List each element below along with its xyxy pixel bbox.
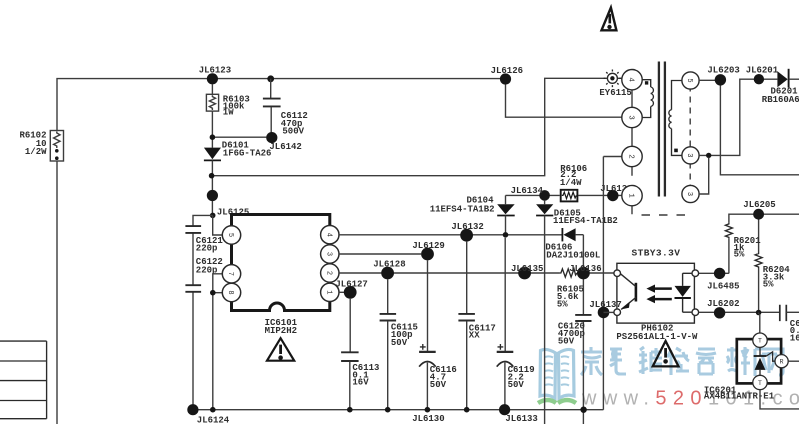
svg-text:T: T	[758, 380, 762, 387]
resistor R6201	[725, 223, 761, 274]
svg-text:PS2561AL1-1-V-W: PS2561AL1-1-V-W	[616, 332, 698, 342]
wire: C6121/C6122 branch	[193, 215, 213, 409]
svg-text:5%: 5%	[734, 250, 745, 260]
IC6201 pin (right)	[775, 355, 788, 368]
wire: pin2 net	[339, 272, 614, 274]
svg-text:JL6127: JL6127	[335, 279, 367, 289]
svg-text:EY6115: EY6115	[599, 88, 631, 98]
capacitor C6203	[780, 305, 799, 344]
svg-text:MIP2H2: MIP2H2	[265, 326, 297, 336]
wire: IC6201 right pin out	[788, 360, 799, 362]
capacitor C6113	[341, 299, 379, 410]
svg-text:5: 5	[226, 233, 234, 237]
diode D6101	[204, 140, 272, 160]
node JL6137	[589, 300, 621, 318]
node JL6133	[499, 404, 538, 424]
node (junction D6104 net)	[503, 232, 509, 238]
svg-text:1F6G-TA26: 1F6G-TA26	[223, 148, 272, 158]
svg-text:JL6485: JL6485	[707, 281, 739, 291]
transformer isolation dashed boundary	[642, 75, 693, 216]
watermark url www.520101.com	[581, 388, 799, 410]
node JL6128	[373, 259, 405, 279]
svg-text:T: T	[758, 338, 762, 345]
transformer secondary pin 3 (lower)	[682, 185, 699, 202]
svg-text:16V: 16V	[790, 333, 799, 343]
resistor R6105	[557, 269, 584, 309]
node (junction R6103/D6101)	[210, 134, 216, 140]
resistor R6103	[206, 84, 249, 148]
wire: pin2 left stub down to JL6137 and ground rail	[603, 157, 621, 410]
transformer primary winding (pins 4-3)	[642, 80, 653, 118]
shunt regulator internals	[754, 348, 776, 376]
optocoupler light arrows	[646, 285, 671, 304]
wire: D6101 cathode down through JL6125	[211, 160, 213, 215]
resistor R6204	[755, 253, 790, 313]
svg-text:JL6133: JL6133	[505, 414, 537, 424]
svg-text:JL6203: JL6203	[707, 66, 739, 76]
svg-text:3: 3	[324, 252, 332, 256]
node JL6135	[511, 264, 543, 280]
wire: snubber line to transformer pin 4	[212, 78, 622, 175]
svg-text:220p: 220p	[196, 244, 218, 254]
spark gap EY6115	[599, 70, 631, 98]
connector table (left edge)	[0, 341, 47, 419]
IC6101 pin 2	[321, 264, 339, 282]
wire: D6106 corner down through JL6136 / C6120 to rail and bottom edge	[582, 235, 584, 424]
svg-text:JL6202: JL6202	[707, 299, 739, 309]
svg-text:8: 8	[226, 290, 234, 294]
node JL6126	[491, 66, 523, 85]
svg-text:JL6136: JL6136	[569, 264, 601, 274]
wire: pin1 to JL6127	[339, 291, 345, 293]
svg-text:RB160A6: RB160A6	[762, 95, 799, 105]
node JL6127	[335, 279, 367, 298]
IC6101 pin 3	[321, 245, 339, 263]
svg-text:JL6132: JL6132	[451, 222, 483, 232]
node JL6142	[266, 132, 302, 152]
node JL6202	[699, 299, 780, 318]
wire: left branch vertical + top rail to JL6126	[57, 79, 506, 424]
node JL6205	[729, 200, 799, 252]
capacitor C6121	[185, 226, 223, 254]
svg-text:AX4B11ANTR-E1: AX4B11ANTR-E1	[704, 392, 775, 402]
diode D6201	[762, 69, 799, 105]
svg-text:11EFS4-TA1B2: 11EFS4-TA1B2	[430, 205, 495, 215]
svg-text:XX: XX	[469, 331, 480, 341]
node (junction JL6125/C6121/pin5)	[210, 213, 216, 219]
wire: jog to IC pin 5	[213, 215, 223, 235]
node JL6139	[600, 184, 632, 201]
wire: R6103 bottom junction to JL6142	[212, 136, 266, 138]
svg-text:5%: 5%	[763, 279, 774, 289]
node (junction pin8)	[210, 290, 216, 296]
svg-text:4: 4	[324, 233, 332, 237]
wire: secondary pin 5 to JL6203, down and out right edge	[699, 80, 799, 175]
capacitor C6116 (electrolytic)	[419, 260, 457, 409]
svg-text:50V: 50V	[508, 380, 525, 390]
svg-text:JL6142: JL6142	[269, 142, 301, 152]
IC6201 pin (top)	[753, 333, 767, 347]
transformer core	[659, 62, 665, 197]
resistor R6106 (fusible, boxed)	[560, 164, 587, 202]
wire: junction down to IC6201	[759, 313, 760, 334]
svg-text:5: 5	[685, 78, 693, 82]
node JL6123	[199, 66, 231, 85]
transformer pin 1	[622, 185, 642, 205]
node JL6125	[207, 190, 250, 218]
wire: JL6126 to transformer pin 3	[506, 85, 622, 118]
node JL6132	[451, 222, 483, 242]
svg-text:50V: 50V	[430, 380, 447, 390]
capacitor C6117	[458, 242, 495, 410]
node JL6485	[699, 268, 740, 292]
svg-text:1W: 1W	[223, 108, 234, 118]
transformer pin 3	[622, 107, 642, 127]
svg-text:3: 3	[685, 153, 693, 157]
svg-text:JL6129: JL6129	[412, 241, 444, 251]
svg-text:1: 1	[324, 290, 332, 294]
IC6201 pin (bottom)	[753, 375, 767, 389]
capacitor C6112	[263, 75, 308, 136]
optocoupler LED	[675, 273, 693, 312]
ground rail (bottom)	[193, 409, 604, 411]
node (junction sec pin3)	[706, 153, 711, 158]
capacitor C6122	[185, 257, 222, 292]
IC6101 pin 4	[321, 226, 339, 244]
IC6101 pin 1	[321, 283, 339, 301]
transformer pin 4	[622, 70, 642, 90]
svg-text:R: R	[780, 359, 784, 366]
svg-text:1/4W: 1/4W	[560, 178, 582, 188]
transformer secondary winding	[669, 81, 682, 156]
svg-text:4: 4	[626, 77, 634, 82]
svg-text:2: 2	[324, 271, 332, 275]
svg-text:3: 3	[626, 115, 634, 120]
IC6101 pin 5	[222, 226, 240, 244]
capacitor C6120	[558, 315, 592, 347]
svg-text:11EFS4-TA1B2: 11EFS4-TA1B2	[553, 216, 618, 226]
warning triangle (top)	[602, 8, 617, 31]
watermark book logo	[540, 349, 574, 398]
svg-text:JL6205: JL6205	[743, 200, 775, 210]
IC6101 pin 8	[222, 283, 240, 301]
warning triangle (IC6101)	[267, 338, 294, 361]
node (junction on D6101 net)	[209, 173, 215, 179]
svg-text:5%: 5%	[557, 299, 568, 309]
svg-text:2: 2	[626, 154, 634, 159]
svg-text:16V: 16V	[352, 378, 369, 388]
polarity dot (secondary)	[674, 149, 678, 153]
svg-text:JL6201: JL6201	[746, 66, 779, 76]
wire: lower pin 3 stub	[699, 158, 709, 195]
diode D6106	[545, 228, 600, 261]
optocoupler pin (bottom-left)	[614, 309, 621, 316]
node JL6134	[511, 186, 550, 201]
polarity dot (primary)	[645, 81, 648, 84]
svg-text:7: 7	[226, 272, 234, 276]
transformer pin stubs (primary column)	[631, 90, 633, 214]
watermark chinese characters	[581, 347, 783, 376]
node JL6201	[746, 66, 779, 85]
diode D6104	[430, 195, 515, 232]
svg-text:JL6135: JL6135	[511, 264, 543, 274]
transformer secondary pin 3	[682, 147, 699, 164]
node (junction R6204/IC6201)	[756, 310, 762, 316]
transformer secondary pin 5	[682, 72, 699, 89]
diode D6105	[536, 200, 618, 424]
op-amp IC6101 MIP2H2 body	[232, 215, 330, 337]
svg-text:3: 3	[685, 192, 693, 196]
svg-text:50V: 50V	[558, 337, 575, 347]
node JL6203	[707, 66, 739, 86]
wire: pin4 net to D6106	[339, 234, 562, 236]
svg-text:JL6134: JL6134	[511, 186, 544, 196]
optocoupler pin (top-right)	[692, 270, 699, 277]
optocoupler pin (top-left)	[614, 270, 621, 277]
watermark green swoosh	[538, 400, 576, 403]
svg-text:STBY3.3V: STBY3.3V	[632, 248, 681, 259]
wire: pin3 net to JL6129	[339, 253, 421, 255]
wire: IC6201 bottom pin out	[760, 390, 799, 409]
svg-text:JL6124: JL6124	[197, 416, 230, 424]
warning triangle (PH6102)	[653, 341, 679, 366]
optocoupler PH6102 body	[616, 263, 698, 342]
svg-text:500V: 500V	[282, 126, 304, 136]
svg-text:1/2W: 1/2W	[25, 147, 47, 157]
wire: primary line D6104 corner to transformer pin 1	[506, 194, 622, 196]
shunt regulator IC6201 body	[704, 339, 781, 402]
svg-text:DA2J10100L: DA2J10100L	[546, 251, 600, 261]
resistor R6102 (fusible, boxed)	[19, 131, 63, 162]
wire: pin7/pin8 branch to ground rail	[213, 274, 223, 410]
IC6101 pin 7	[222, 265, 240, 283]
optocoupler phototransistor	[620, 274, 636, 310]
svg-text:JL6126: JL6126	[491, 66, 523, 76]
svg-text:1: 1	[626, 193, 634, 198]
wire: secondary pin 3 line up to JL6201 line	[699, 79, 777, 155]
capacitor C6119 (electrolytic)	[497, 238, 535, 405]
optocoupler pin (bottom-right)	[692, 309, 699, 316]
rail junction dots	[210, 407, 587, 413]
svg-text:JL6130: JL6130	[412, 414, 444, 424]
svg-text:50V: 50V	[391, 338, 408, 348]
node JL6136	[569, 264, 601, 280]
node JL6124	[187, 404, 230, 424]
node JL6129	[412, 241, 444, 261]
capacitor C6115	[380, 279, 418, 409]
svg-text:JL6123: JL6123	[199, 66, 231, 76]
transformer pin 2	[622, 146, 642, 166]
svg-text:JL6125: JL6125	[217, 208, 249, 218]
svg-text:JL6128: JL6128	[373, 259, 405, 269]
